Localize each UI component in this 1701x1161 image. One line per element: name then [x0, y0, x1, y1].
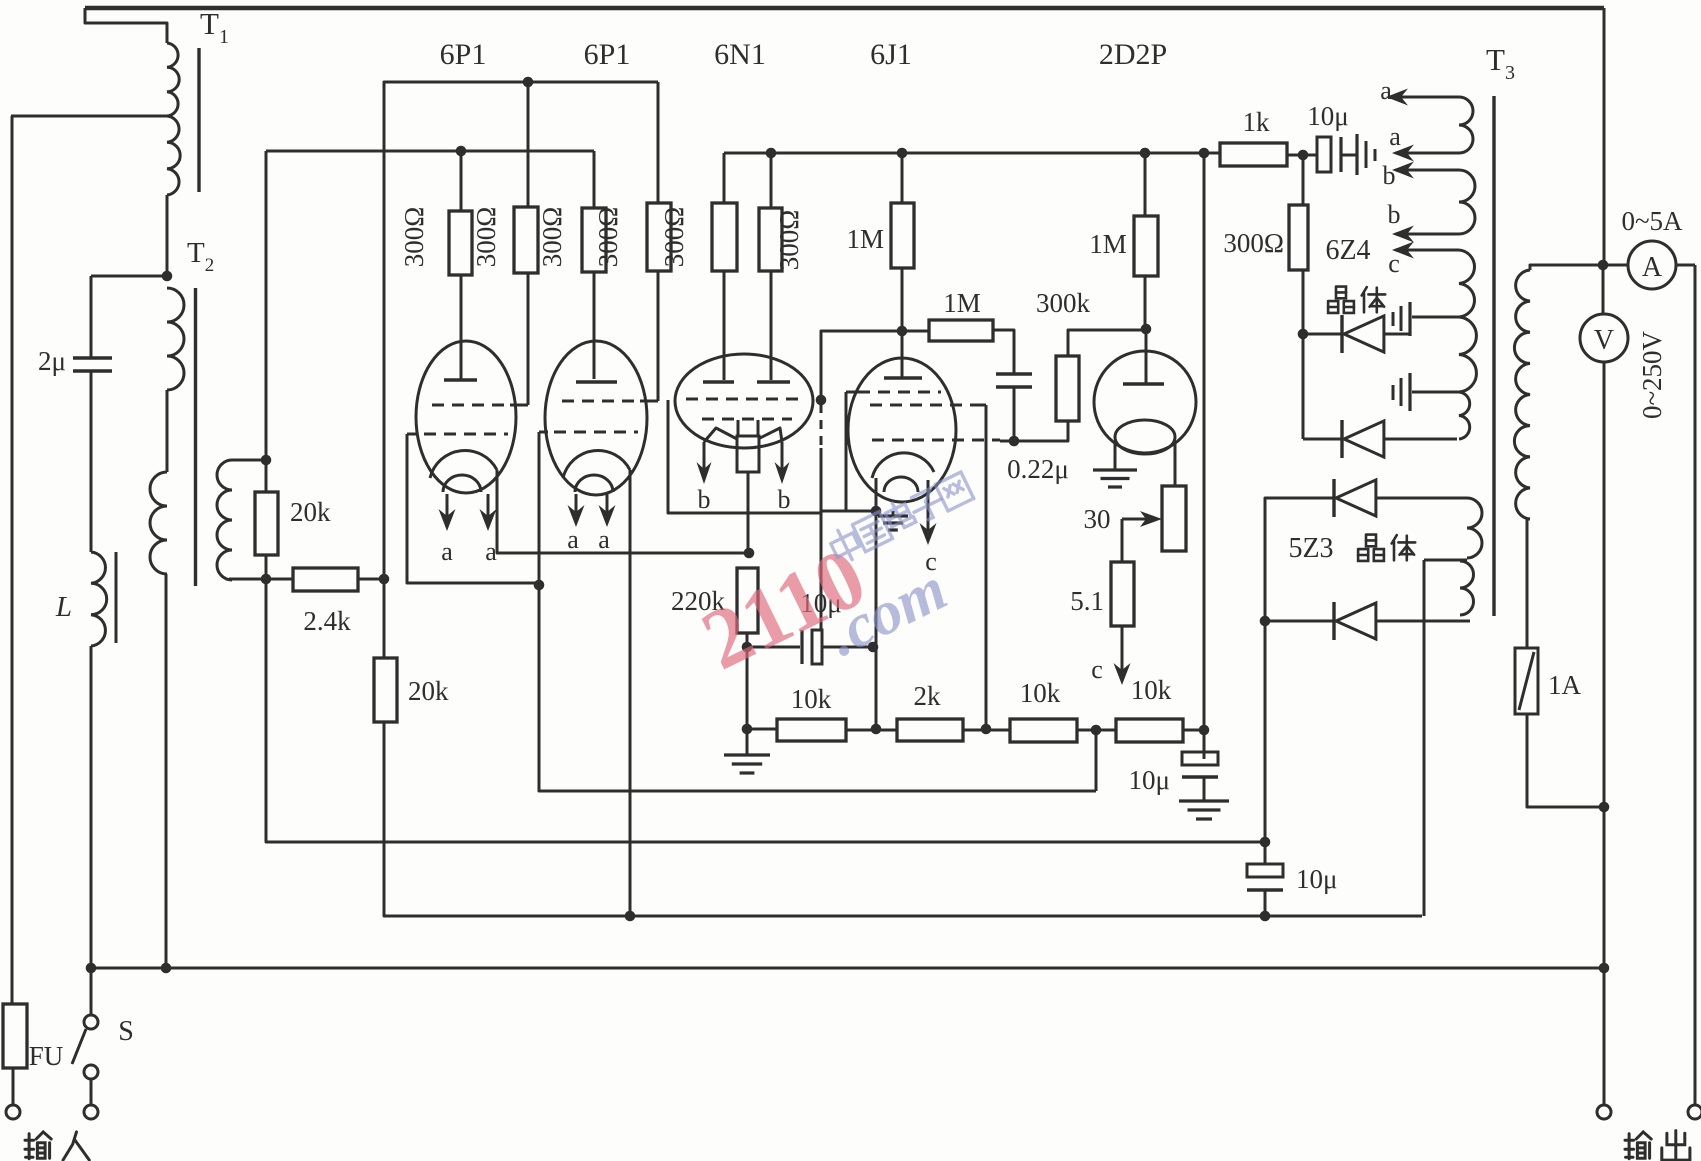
node: meter junction — [1598, 260, 1609, 271]
svg-text:2.4k: 2.4k — [303, 606, 351, 636]
tube 6P1#2 envelope — [545, 341, 647, 495]
pin a arrow 1 tube1 — [446, 494, 449, 519]
svg-text:10μ: 10μ — [1129, 765, 1170, 795]
wire: 300k top — [1068, 330, 1146, 356]
svg-text:300Ω: 300Ω — [471, 207, 501, 268]
T3 winding W6 — [1460, 561, 1474, 615]
wire: 20k to bottom node — [265, 555, 268, 579]
node: chain mid — [1091, 725, 1102, 736]
wire: T2 mid section — [166, 390, 169, 472]
wire: cathode drop tube1 — [497, 470, 749, 553]
wire: chain segment 4 — [1077, 729, 1116, 732]
node: 6J1 anode node — [897, 326, 908, 337]
tap arrow b1 — [1404, 169, 1459, 172]
svg-text:2μ: 2μ — [38, 346, 66, 376]
node: grid3 node — [1009, 436, 1020, 447]
node: heater bus join — [1260, 911, 1271, 922]
wire: 6N1 heater box — [668, 400, 821, 513]
wire: anode into 2D2P — [1145, 329, 1148, 383]
svg-text:b: b — [698, 485, 711, 514]
T3 winding W2 — [1459, 170, 1475, 234]
wire: secondary top — [1530, 265, 1603, 270]
resistor 10k #1 — [777, 719, 846, 741]
wire: grid1 drop left — [845, 392, 848, 511]
wire: 6J1 cathode left pin — [875, 478, 878, 511]
wire: 2u to L coil — [90, 371, 93, 552]
wire: R2 bottom to screen — [527, 273, 530, 405]
wire: W3 tap — [1412, 316, 1459, 319]
svg-text:2D2P: 2D2P — [1099, 38, 1167, 71]
tap arrow b2 — [1404, 233, 1459, 236]
resistor 300ohm R3 — [582, 208, 606, 272]
node: 6J1 anode top — [897, 148, 908, 159]
label output (shu-chu) — [1625, 1132, 1651, 1159]
switch S contact top — [84, 1015, 98, 1029]
svg-text:0~250V: 0~250V — [1637, 330, 1667, 419]
svg-text:300Ω: 300Ω — [399, 207, 429, 268]
wire: W6 bottom link — [1378, 620, 1470, 623]
wire: chain segment 5 — [1183, 729, 1204, 732]
wire: V mid to mains bus — [1603, 807, 1606, 968]
capacitor 0.22u — [996, 372, 1032, 375]
tube 6P1#2 plate bar — [576, 380, 617, 383]
svg-text:10μ: 10μ — [1296, 864, 1337, 894]
svg-text:L: L — [55, 591, 72, 623]
wire: right rail down — [1694, 265, 1697, 1105]
tube 6P1#1 screen grid (dashes) — [432, 404, 510, 407]
T3 winding W4 — [1459, 392, 1470, 439]
wire: T2 primary bottom down — [165, 574, 168, 968]
wire: 5Z3 output down — [1264, 621, 1267, 842]
svg-text:b: b — [778, 485, 791, 514]
svg-text:0.22μ: 0.22μ — [1007, 454, 1069, 484]
tube 6J1 filament hump — [884, 477, 918, 492]
label input (shu-ru) — [25, 1132, 51, 1159]
svg-text:300Ω: 300Ω — [1223, 228, 1284, 258]
wire: bus corner to R5 — [723, 153, 726, 203]
node: V line mid — [1599, 802, 1610, 813]
wire: top supply border — [85, 6, 1604, 11]
resistor 300ohm R5 — [712, 203, 737, 271]
wire: filament tap down — [1423, 560, 1426, 916]
pin b arrow 2 — [781, 442, 784, 472]
wire: heater-box drop to cap — [820, 513, 823, 630]
tube 6N1 grids (dashes) — [686, 398, 801, 401]
tube 6J1 grid3 (dashes) — [872, 439, 1000, 442]
wire: bus to R3 — [593, 151, 596, 208]
transformer T1 primary coil — [167, 43, 179, 116]
tube 6P1#1 control grid (dashes) — [424, 433, 508, 436]
capacitor 10u (chain) — [1182, 752, 1218, 765]
fuse FU — [3, 1004, 27, 1068]
wire: T2 sec bottom — [229, 578, 266, 581]
node: grid2 on chain — [981, 724, 992, 735]
switch S contact bottom — [84, 1065, 98, 1079]
svg-text:b: b — [1383, 161, 1396, 190]
node: cathode2 on heater bus — [625, 911, 636, 922]
wire: node to 300ohm — [1302, 155, 1305, 205]
wire: top-left step to T1 — [85, 8, 167, 43]
resistor 1M horizontal (grid leak) — [929, 320, 993, 341]
svg-text:a: a — [441, 537, 453, 566]
wire: 1M2 to anode node — [1144, 276, 1147, 329]
T3 winding W5 (5Z3 plate) — [1467, 498, 1482, 558]
wire: node to cap — [1264, 842, 1267, 864]
wire: screen bus y82 — [384, 82, 658, 579]
svg-text:10k: 10k — [1131, 675, 1172, 705]
resistor 5.1 — [1111, 562, 1134, 626]
svg-text:5Z3: 5Z3 — [1288, 533, 1333, 564]
capacitor 10u (output) — [1247, 864, 1283, 877]
svg-text:300Ω: 300Ω — [659, 207, 689, 268]
resistor 300ohm R4 (screen) — [647, 203, 671, 271]
svg-text:20k: 20k — [408, 676, 449, 706]
label jingti 6Z4 — [1328, 287, 1354, 313]
wire: grid2 drop right — [985, 405, 988, 729]
wire: 1M to node — [901, 268, 904, 331]
svg-text:300Ω: 300Ω — [537, 207, 567, 268]
resistor 20k (lower) — [374, 658, 397, 722]
svg-text:c: c — [1388, 249, 1400, 278]
wire: plate bus left y151 — [266, 150, 594, 153]
node: D4 anode — [1260, 616, 1271, 627]
wire: grids to fb line — [539, 585, 1096, 791]
wire: R1 to plate — [460, 275, 463, 379]
wire: 5Z3 cathode rail — [1265, 498, 1334, 621]
inductor L — [91, 552, 107, 646]
wire: 6N1 center pin down — [747, 472, 750, 553]
tube 6N1 plate bars — [703, 380, 734, 383]
wire: T1 tap to left rail — [11, 115, 167, 118]
tube 6J1 grid1 (dashes) — [858, 391, 941, 394]
capacitor 2u — [73, 356, 112, 359]
transformer T2 primary lower — [150, 472, 167, 574]
wire: 1k right — [1287, 154, 1298, 157]
svg-text:1A: 1A — [1548, 670, 1582, 700]
tube 6J1 cathode cup — [872, 453, 934, 478]
pin c arrow 2D2P — [1121, 626, 1124, 673]
svg-text:300Ω: 300Ω — [774, 210, 804, 271]
svg-text:a: a — [567, 525, 579, 554]
svg-text:V: V — [1594, 325, 1614, 356]
diode 6Z4 D2 — [1303, 438, 1342, 441]
wire: voltmeter down — [1603, 362, 1606, 807]
potentiometer 30 — [1162, 486, 1186, 551]
node: 2.4k right junction — [379, 574, 390, 585]
wire: cathode node down to cap — [875, 511, 878, 647]
terminal: input right — [84, 1105, 98, 1119]
wire: junction to voltmeter — [1602, 265, 1605, 314]
svg-text:10μ: 10μ — [1307, 101, 1348, 131]
svg-text:FU: FU — [29, 1041, 64, 1071]
transformer T2 primary upper — [167, 288, 184, 390]
tube 2D2P plate bar — [1123, 382, 1164, 385]
svg-text:a: a — [1389, 122, 1401, 151]
wire: plate bus right y153 — [724, 152, 1220, 155]
wire: 0.22u to grid3 node — [1013, 387, 1016, 441]
pot wiper arrow — [1122, 518, 1146, 521]
node: T2 bottom on mains bus — [161, 963, 172, 974]
wire: R5 to plate — [723, 271, 726, 380]
wire: ammeter to right rail — [1676, 264, 1695, 267]
node: R6 top — [766, 148, 777, 159]
wire: bus to 1M — [901, 153, 904, 203]
wire: wiper to 5.1 — [1121, 519, 1124, 562]
node: chain right — [1199, 725, 1210, 736]
wire: FU to input terminal — [12, 1068, 15, 1105]
diode 5Z3 D3 — [1265, 497, 1334, 500]
svg-text:6P1: 6P1 — [584, 38, 631, 71]
tube 6P1#2 screen grid (dashes) — [562, 400, 640, 403]
tube 6N1 cathode zigzags — [704, 428, 737, 442]
resistor 300k — [1056, 356, 1079, 421]
wire: grid2 drop — [538, 432, 541, 585]
wire: R4 bottom to screen — [657, 271, 660, 401]
wire: mains bottom bus — [91, 967, 1604, 970]
tap arrow a2 — [1404, 152, 1459, 155]
wire: chain segment 2 — [846, 729, 897, 732]
wire: L to mains bus — [90, 646, 93, 968]
tube 6P1#2 filament hump — [575, 475, 613, 492]
wire: cap to ground — [1203, 777, 1206, 801]
svg-text:1M: 1M — [846, 224, 884, 254]
wire: fuse to output node — [1527, 714, 1604, 807]
resistor 300ohm R1 — [449, 211, 472, 275]
wire: 2D2P right pin — [1174, 444, 1177, 486]
wire: D1-D2 link — [1302, 334, 1305, 439]
wire: anode node to 1M — [902, 330, 929, 333]
pin a arrow 2 tube1 — [487, 494, 490, 519]
svg-text:A: A — [1642, 252, 1663, 283]
ground: 6J1 cathode — [878, 514, 908, 517]
ground: 2D2P cathode — [1093, 468, 1137, 471]
node: 6J1 cathode chain — [871, 724, 882, 735]
wire: W4 tap — [1412, 391, 1459, 394]
terminal: output left — [1597, 1105, 1611, 1119]
pin a arrow 1 tube2 — [575, 494, 578, 515]
node: secondary top — [261, 455, 272, 466]
tap arrow c1 — [1404, 249, 1459, 252]
tube 6J1 plate bar — [884, 376, 922, 379]
resistor 20k (secondary load) — [255, 492, 278, 555]
cap-gnd symbol 2 — [1408, 373, 1411, 411]
transformer T2 secondary coil — [217, 460, 232, 580]
wire: 2D2P left pin — [1114, 444, 1117, 470]
tube 2D2P envelope — [1094, 351, 1196, 453]
node: 1M2 top — [1140, 148, 1151, 159]
wire: chain top vertical — [1203, 153, 1206, 759]
cap-gnd symbol 1 — [1408, 302, 1411, 336]
wire: node to 20k — [265, 460, 268, 492]
wire: cap link — [1303, 154, 1317, 157]
svg-text:1k: 1k — [1243, 107, 1271, 137]
wire: 1M to 0.22u — [993, 330, 1014, 373]
wire: junction to ammeter — [1603, 264, 1628, 267]
svg-text:6J1: 6J1 — [870, 38, 912, 71]
T3 secondary coil — [1514, 270, 1530, 519]
switch S blade — [72, 1029, 86, 1064]
tube 6P1#2 control grid (dashes) — [554, 431, 638, 434]
fuse 1A — [1515, 648, 1538, 714]
wire: bus to 1M2 — [1144, 153, 1147, 216]
wire: 2.4k left — [266, 578, 293, 581]
wire: cap to heater bus — [1264, 890, 1267, 916]
ground: chain left — [724, 753, 770, 756]
T3 winding W3 — [1459, 250, 1475, 317]
node: 6Z4 cathode node — [1298, 329, 1309, 340]
node: switch top on mains bus — [86, 963, 97, 974]
svg-text:0~5A: 0~5A — [1621, 206, 1683, 236]
wire: top border down to meter — [1603, 8, 1606, 265]
svg-text:6Z4: 6Z4 — [1325, 235, 1370, 266]
svg-text:1M: 1M — [1089, 229, 1127, 259]
node: grids join — [534, 580, 545, 591]
wire: chain segment 3 — [963, 729, 1010, 732]
svg-text:S: S — [118, 1016, 134, 1047]
tube 6N1 center pin box — [737, 436, 759, 472]
node: 6J1 cathode — [871, 506, 882, 517]
svg-text:30: 30 — [1084, 504, 1111, 534]
tube 6P1#2 cathode cup — [563, 450, 630, 478]
inductor L core bar — [115, 552, 118, 643]
wire: 6J1 anode link left — [821, 331, 902, 397]
node: chain cap top — [1199, 148, 1210, 159]
tube 6P1#1 filament hump — [443, 475, 481, 492]
svg-text:c: c — [1091, 655, 1103, 684]
wire: 220k down to chain — [746, 647, 749, 729]
tap bars — [1355, 134, 1358, 175]
wire: R2 top to screen bus — [527, 82, 530, 207]
T3 winding W3b — [1459, 317, 1476, 392]
svg-text:6P1: 6P1 — [440, 38, 487, 71]
wire: T2 node to cap branch — [91, 275, 167, 278]
transformer T1 core — [197, 48, 200, 192]
terminal: input left — [6, 1105, 20, 1119]
wire: branch down to 2u cap — [90, 276, 93, 358]
wire: bias vertical to grid bus — [265, 151, 268, 460]
wire: screen bus corner to R4 — [657, 82, 660, 203]
svg-text:6N1: 6N1 — [714, 38, 766, 71]
wire: cathode drop tube2 — [629, 470, 632, 916]
wire: switch to input terminal — [90, 1079, 93, 1105]
tube 2D2P cathode cup — [1115, 420, 1175, 454]
wire: T2 sec top to node — [232, 459, 266, 462]
wire: cap node to chain — [875, 647, 878, 729]
node: dash link — [816, 395, 827, 406]
resistor 220k — [737, 568, 758, 633]
wire: R6 top — [770, 153, 773, 208]
svg-text:a: a — [485, 537, 497, 566]
transformer T3 core — [1492, 96, 1495, 616]
ammeter A — [1628, 241, 1676, 289]
pin c arrow 6J1 — [927, 480, 930, 533]
pin a arrow 2 tube2 — [606, 494, 609, 515]
wire: W5-W6 tap — [1424, 559, 1467, 562]
T3 winding W1 — [1459, 97, 1473, 153]
tube 6P1#1 plate bar — [444, 378, 477, 381]
wire: grid1 drop — [407, 434, 539, 583]
wire: R3 to plate — [593, 272, 596, 379]
wire: R6 to plate — [770, 271, 773, 380]
diode 6Z4 D1 — [1303, 333, 1342, 336]
node: 220k top — [744, 548, 755, 559]
wire: T1 to T2 junction — [166, 195, 169, 276]
tap arrow a1 — [1398, 96, 1459, 99]
resistor 10k #2 — [1010, 719, 1077, 742]
node: output junction on mains bus — [1599, 963, 1610, 974]
svg-text:2k: 2k — [914, 681, 942, 711]
tube 6J1 grid2 (dashes) — [870, 404, 975, 407]
wire: grid3 node to 300k — [1014, 421, 1068, 441]
node: 220k bottom — [742, 642, 753, 653]
resistor 2.4k — [293, 568, 358, 591]
wire: feedback bus y842 — [266, 579, 1265, 842]
svg-text:b: b — [1388, 200, 1401, 229]
node: 20k bottom — [261, 574, 272, 585]
node: screen bus junction — [523, 77, 534, 88]
transformer T2 core — [194, 288, 197, 586]
resistor 1M vertical (2D2P) — [1134, 216, 1158, 276]
wire: fb line up to chain — [1095, 730, 1098, 791]
capacitor 10u (cathode byp) — [747, 646, 800, 649]
wire: anode node into tube — [901, 331, 904, 378]
tube 6J1 envelope — [848, 358, 956, 502]
capacitor 10u (rail) — [1317, 137, 1331, 172]
dash link 6N1 — [820, 404, 823, 448]
node: cap right — [868, 642, 879, 653]
node: fb bus join — [1260, 837, 1271, 848]
node: 6Z4 output node — [1298, 150, 1309, 161]
resistor 300ohm R2 (screen) — [514, 207, 538, 273]
resistor 2k — [897, 719, 963, 741]
wire: chain segment 1 — [747, 728, 777, 731]
svg-text:a: a — [598, 525, 610, 554]
pin b arrow 1 — [703, 442, 706, 472]
wire: R1 top — [460, 151, 463, 211]
wire: heater bus y916 — [383, 579, 386, 658]
svg-text:300k: 300k — [1036, 288, 1091, 318]
svg-text:300Ω: 300Ω — [593, 207, 623, 268]
svg-text:20k: 20k — [290, 497, 331, 527]
wire: 300ohm to diode node — [1302, 270, 1305, 334]
wire: bus node to switch — [90, 968, 93, 1015]
terminal: output right — [1688, 1105, 1701, 1119]
wire: mains bus to output terminal — [1603, 968, 1606, 1105]
tube 6P1#1 envelope — [416, 341, 516, 493]
voltmeter V — [1580, 314, 1628, 362]
resistor 300ohm R6 — [759, 208, 782, 271]
wire: left rail down to FU — [11, 116, 14, 1004]
node: R1 top — [456, 146, 467, 157]
svg-text:10k: 10k — [791, 684, 832, 714]
wire: cathode link left — [821, 510, 876, 513]
svg-text:a: a — [1380, 76, 1392, 105]
svg-text:1M: 1M — [943, 288, 981, 318]
tube 6N1 envelope — [675, 354, 813, 448]
wire: 220k bottom — [746, 633, 749, 647]
diode 5Z3 D4 — [1265, 620, 1334, 623]
ground: chain cap — [1179, 799, 1229, 802]
node: 2D2P anode node — [1141, 324, 1152, 335]
node: T2 top junction — [162, 271, 173, 282]
resistor 1M vertical (6J1 anode) — [891, 203, 914, 268]
tube 6P1#1 cathode cup — [430, 450, 497, 478]
svg-text:10k: 10k — [1020, 678, 1061, 708]
resistor 300ohm rail — [1289, 205, 1308, 270]
wire: 2.4k right — [358, 578, 384, 581]
node: chain left end — [742, 724, 753, 735]
resistor 10k #3 — [1116, 719, 1183, 742]
